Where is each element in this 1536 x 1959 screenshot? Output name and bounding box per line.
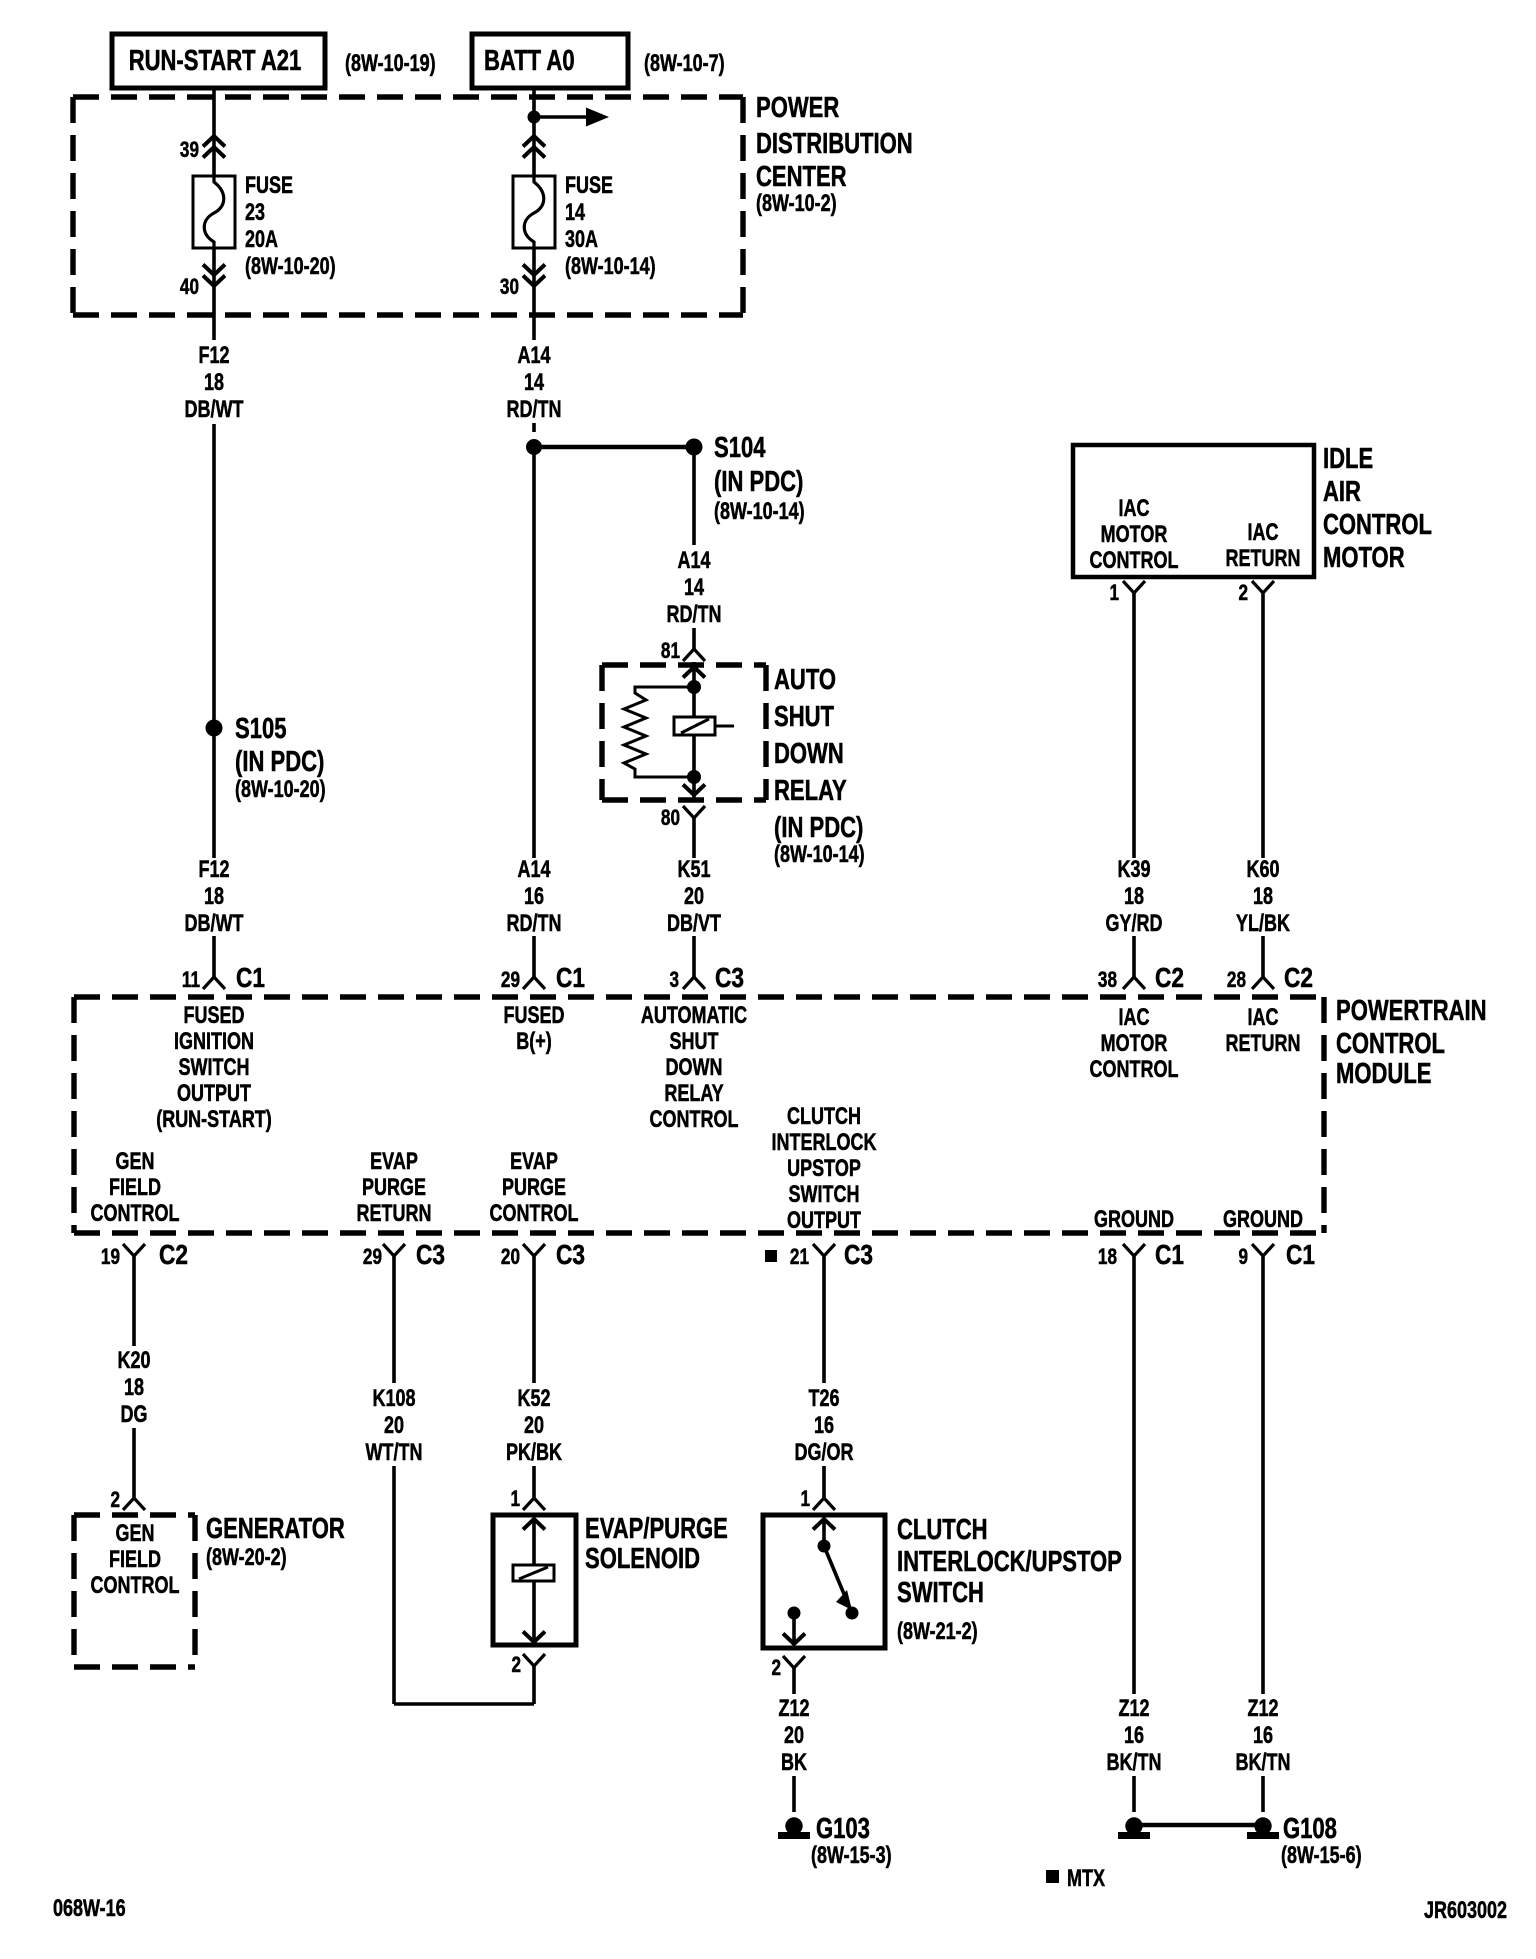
connector pin 9 C1 [1238, 1240, 1315, 1271]
wire RUN-START A21 to fuse 23 [212, 88, 216, 176]
svg-text:IAC: IAC [1248, 1005, 1279, 1031]
svg-text:Z12: Z12 [1247, 1696, 1278, 1722]
svg-text:11: 11 [182, 968, 200, 993]
svg-text:FIELD: FIELD [109, 1175, 161, 1201]
wire to ground G108 right [1261, 1776, 1265, 1812]
svg-text:39: 39 [180, 138, 199, 163]
auto shut down relay dashed box [602, 665, 766, 800]
svg-text:RUN-START A21: RUN-START A21 [129, 45, 302, 77]
svg-text:RD/TN: RD/TN [507, 911, 562, 937]
label S105 (IN PDC) (8W-10-20) [235, 713, 326, 802]
svg-text:PURGE: PURGE [362, 1175, 426, 1201]
connector pin 1 solenoid [510, 1487, 545, 1512]
svg-text:AUTO: AUTO [774, 664, 836, 696]
relay coil K1 [674, 717, 734, 735]
svg-text:FUSED: FUSED [184, 1003, 245, 1029]
wire from pin 20 [532, 1256, 536, 1383]
svg-text:Z12: Z12 [778, 1696, 809, 1722]
svg-text:29: 29 [363, 1245, 382, 1270]
svg-text:PK/BK: PK/BK [506, 1440, 563, 1466]
svg-text:28: 28 [1227, 968, 1246, 993]
ground splice wire [1134, 1823, 1263, 1828]
wire stub to splice [532, 423, 536, 432]
svg-text:3: 3 [669, 968, 679, 993]
switch common contact [818, 1540, 831, 1553]
pin label EVAP PURGE RETURN [357, 1149, 432, 1227]
wire IAC pin2 to K60 label [1261, 593, 1265, 858]
value label FUSE 14 30A (8W-10-14) [565, 173, 656, 280]
svg-text:A14: A14 [677, 548, 710, 574]
svg-text:30A: 30A [565, 227, 598, 253]
svg-text:16: 16 [1124, 1723, 1144, 1749]
svg-text:GY/RD: GY/RD [1106, 911, 1163, 937]
wire from pin 29 [392, 1256, 396, 1383]
svg-text:IAC: IAC [1248, 520, 1279, 546]
wire from pin 21 [822, 1256, 826, 1383]
svg-text:GENERATOR: GENERATOR [206, 1513, 345, 1545]
svg-text:INTERLOCK: INTERLOCK [772, 1130, 878, 1156]
svg-text:20: 20 [784, 1723, 804, 1749]
svg-text:(IN PDC): (IN PDC) [235, 746, 324, 778]
connector pin 80 [661, 806, 705, 831]
svg-text:MOTOR: MOTOR [1101, 522, 1168, 548]
svg-text:EVAP: EVAP [510, 1149, 558, 1175]
label S104 (IN PDC) (8W-10-14) [714, 432, 805, 524]
svg-text:9: 9 [1238, 1245, 1248, 1270]
svg-text:EVAP/PURGE: EVAP/PURGE [585, 1513, 728, 1545]
connector pin 11 C1 [182, 963, 265, 994]
svg-text:G103: G103 [816, 1813, 870, 1845]
wire to ground G103 [792, 1776, 796, 1812]
label IAC RETURN (in box) [1226, 520, 1301, 572]
svg-text:MOTOR: MOTOR [1101, 1031, 1168, 1057]
connector pin 29 C3 [363, 1240, 445, 1271]
svg-text:JR603002: JR603002 [1424, 1898, 1507, 1924]
wire to PCM pin 29 [532, 936, 536, 977]
svg-text:Z12: Z12 [1118, 1696, 1149, 1722]
switch output contact [788, 1607, 801, 1620]
svg-text:18: 18 [204, 884, 224, 910]
svg-text:SWITCH: SWITCH [179, 1055, 250, 1081]
svg-text:S104: S104 [714, 432, 766, 464]
label POWERTRAIN CONTROL MODULE [1336, 995, 1487, 1090]
pin 30 upper chevrons [523, 136, 545, 158]
svg-text:K20: K20 [117, 1348, 150, 1374]
wire switch pin2 down [792, 1668, 796, 1694]
svg-text:CONTROL: CONTROL [1336, 1028, 1445, 1060]
svg-text:38: 38 [1098, 968, 1117, 993]
svg-text:BATT A0: BATT A0 [484, 45, 575, 77]
ground G108 symbol [1247, 1817, 1279, 1839]
svg-text:SWITCH: SWITCH [897, 1577, 984, 1609]
svg-text:(8W-10-14): (8W-10-14) [714, 499, 805, 525]
evap/purge solenoid box [493, 1515, 576, 1645]
wire label A14 14 RD/TN (relay feed) [667, 548, 722, 628]
svg-text:POWERTRAIN: POWERTRAIN [1336, 995, 1487, 1027]
svg-text:16: 16 [1253, 1723, 1273, 1749]
wire elbow K108 to solenoid pin 2 [394, 1702, 534, 1706]
svg-text:IGNITION: IGNITION [174, 1029, 254, 1055]
svg-text:UPSTOP: UPSTOP [787, 1156, 861, 1182]
wire to PCM pin 28 [1261, 936, 1265, 977]
svg-text:BK/TN: BK/TN [1107, 1750, 1162, 1776]
svg-text:30: 30 [500, 275, 519, 300]
svg-text:(8W-10-20): (8W-10-20) [245, 254, 336, 280]
connector pin 1 IAC [1109, 581, 1145, 606]
svg-text:14: 14 [524, 370, 544, 396]
svg-text:DG: DG [121, 1402, 148, 1428]
svg-text:PURGE: PURGE [502, 1175, 566, 1201]
svg-text:GEN: GEN [116, 1521, 155, 1547]
fuse 14 30A [513, 176, 555, 248]
svg-text:18: 18 [204, 370, 224, 396]
svg-text:1: 1 [510, 1487, 520, 1512]
connector pin 20 C3 [501, 1240, 585, 1271]
svg-text:SHUT: SHUT [670, 1029, 719, 1055]
svg-text:(8W-10-2): (8W-10-2) [756, 191, 837, 217]
wire K108 down [392, 1466, 396, 1704]
svg-text:C3: C3 [556, 1240, 585, 1271]
svg-text:YL/BK: YL/BK [1236, 911, 1291, 937]
svg-text:POWER: POWER [756, 92, 840, 124]
wire F12 to S105 [212, 424, 216, 858]
splice S105 [206, 720, 223, 737]
wire splice to S104 [534, 445, 694, 450]
svg-text:SOLENOID: SOLENOID [585, 1543, 700, 1575]
label CLUTCH INTERLOCK/UPSTOP SWITCH (8W-21-2) [897, 1514, 1122, 1644]
label IDLE AIR CONTROL MOTOR [1323, 443, 1432, 574]
wire label A14 14 RD/TN [507, 343, 562, 423]
svg-text:SWITCH: SWITCH [789, 1182, 860, 1208]
wire S104 down to A14 label [692, 455, 696, 545]
svg-text:2: 2 [511, 1653, 521, 1678]
svg-text:20: 20 [524, 1413, 544, 1439]
svg-text:WT/TN: WT/TN [366, 1440, 423, 1466]
svg-text:C1: C1 [556, 963, 585, 994]
solenoid internal wire [532, 1519, 536, 1643]
svg-text:GROUND: GROUND [1094, 1207, 1174, 1233]
connector pin 3 C3 [669, 963, 744, 994]
svg-text:MOTOR: MOTOR [1323, 542, 1405, 574]
wire IAC pin1 to K39 label [1132, 593, 1136, 858]
svg-text:MTX: MTX [1067, 1866, 1105, 1892]
wire label K39 18 GY/RD [1106, 857, 1163, 937]
svg-text:C3: C3 [844, 1240, 873, 1271]
svg-text:OUTPUT: OUTPUT [787, 1208, 861, 1234]
power distribution center dashed box [73, 97, 743, 315]
svg-text:C2: C2 [1284, 963, 1313, 994]
svg-text:18: 18 [1124, 884, 1144, 910]
wire K52 to solenoid [532, 1466, 536, 1498]
switch wire to contact [822, 1519, 826, 1546]
svg-text:(IN PDC): (IN PDC) [714, 466, 803, 498]
svg-text:C2: C2 [1155, 963, 1184, 994]
svg-text:(8W-15-3): (8W-15-3) [811, 1843, 892, 1869]
generator gen field control dashed box [74, 1515, 195, 1667]
wire to ground G108 left [1132, 1776, 1136, 1812]
svg-text:K60: K60 [1246, 857, 1279, 883]
svg-text:RETURN: RETURN [357, 1201, 432, 1227]
connector pin 2 generator [110, 1488, 145, 1513]
svg-text:DB/WT: DB/WT [185, 911, 244, 937]
relay chevron out [683, 785, 705, 796]
switch throw contact [846, 1607, 859, 1620]
wire to PCM pin 11 [212, 936, 216, 977]
node RUN-START A21 feed box [112, 34, 325, 88]
svg-text:DISTRIBUTION: DISTRIBUTION [756, 128, 913, 160]
svg-text:AUTOMATIC: AUTOMATIC [641, 1003, 747, 1029]
label AUTO SHUT DOWN RELAY (IN PDC) (8W-10-14) [774, 664, 865, 867]
pin 40 [180, 265, 225, 300]
svg-text:23: 23 [245, 200, 265, 226]
wire label Z12 20 BK [778, 1696, 809, 1776]
svg-text:(8W-10-19): (8W-10-19) [345, 51, 436, 77]
connector pin 2 switch [771, 1656, 805, 1681]
solenoid coil [513, 1565, 554, 1581]
svg-text:CONTROL: CONTROL [91, 1573, 180, 1599]
pin label IAC MOTOR CONTROL (PCM) [1090, 1005, 1179, 1083]
label EVAP/PURGE SOLENOID [585, 1513, 728, 1575]
wire label A14 16 RD/TN [507, 857, 562, 937]
svg-text:C1: C1 [1155, 1240, 1184, 1271]
connector pin 2 IAC [1238, 581, 1274, 606]
wire K20 to generator [132, 1428, 136, 1498]
wire BATT A0 to fuse 14 [532, 88, 536, 176]
svg-text:MODULE: MODULE [1336, 1058, 1431, 1090]
relay resistor (parallel) [624, 687, 694, 777]
svg-text:DOWN: DOWN [774, 738, 844, 770]
svg-text:S105: S105 [235, 713, 286, 745]
svg-text:BK/TN: BK/TN [1236, 1750, 1291, 1776]
solenoid chevron out [523, 1632, 545, 1643]
svg-text:(8W-20-2): (8W-20-2) [206, 1545, 287, 1571]
wire T26 to switch [822, 1466, 826, 1498]
connector pin 38 C2 [1098, 963, 1184, 994]
pin label IAC RETURN (PCM) [1226, 1005, 1301, 1057]
svg-text:18: 18 [1253, 884, 1273, 910]
wire from pin 18 [1132, 1256, 1136, 1694]
svg-text:C2: C2 [159, 1240, 188, 1271]
svg-text:DOWN: DOWN [666, 1055, 723, 1081]
svg-text:IAC: IAC [1119, 496, 1150, 522]
relay junction top [687, 680, 701, 694]
svg-text:(RUN-START): (RUN-START) [156, 1107, 272, 1133]
svg-text:GROUND: GROUND [1223, 1207, 1303, 1233]
svg-text:C1: C1 [236, 963, 265, 994]
svg-text:BK: BK [781, 1750, 808, 1776]
label G108 (8W-15-6) [1281, 1813, 1362, 1868]
svg-text:CONTROL: CONTROL [490, 1201, 579, 1227]
relay junction bottom [687, 770, 701, 784]
wire label K51 20 DB/VT [667, 857, 721, 937]
svg-text:GEN: GEN [116, 1149, 155, 1175]
powertrain control module dashed box [74, 997, 1324, 1233]
svg-text:FUSE: FUSE [565, 173, 613, 199]
connector pin 21 C3 [765, 1240, 873, 1271]
solenoid chevron in [523, 1519, 545, 1530]
relay internal wire coil to pin 80 [692, 735, 696, 800]
svg-text:2: 2 [1238, 581, 1248, 606]
pin 30 [500, 265, 545, 300]
svg-text:29: 29 [501, 968, 520, 993]
wire label K60 18 YL/BK [1236, 857, 1291, 937]
svg-text:AIR: AIR [1323, 476, 1361, 508]
label G103 (8W-15-3) [811, 1813, 892, 1868]
svg-text:20A: 20A [245, 227, 278, 253]
svg-text:18: 18 [124, 1375, 144, 1401]
svg-text:(IN PDC): (IN PDC) [774, 812, 863, 844]
svg-text:16: 16 [524, 884, 544, 910]
svg-text:068W-16: 068W-16 [53, 1896, 126, 1922]
svg-text:FUSE: FUSE [245, 173, 293, 199]
label POWER DISTRIBUTION CENTER [756, 92, 913, 216]
ground G108 left symbol [1118, 1817, 1150, 1839]
wire label Z12 16 BK/TN (pin 9) [1236, 1696, 1291, 1776]
svg-text:16: 16 [814, 1413, 834, 1439]
svg-text:C1: C1 [1286, 1240, 1315, 1271]
switch blade with arrow [824, 1546, 844, 1594]
svg-text:FIELD: FIELD [109, 1547, 161, 1573]
clutch interlock/upstop switch box [763, 1515, 885, 1648]
svg-text:C3: C3 [416, 1240, 445, 1271]
pin label EVAP PURGE CONTROL [490, 1149, 579, 1227]
svg-text:CONTROL: CONTROL [650, 1107, 739, 1133]
svg-text:CLUTCH: CLUTCH [787, 1104, 861, 1130]
svg-text:20: 20 [384, 1413, 404, 1439]
wire label K52 20 PK/BK [506, 1386, 563, 1466]
svg-text:A14: A14 [517, 343, 550, 369]
svg-text:RELAY: RELAY [774, 775, 847, 807]
connector pin 81 [661, 639, 705, 664]
svg-text:20: 20 [501, 1245, 520, 1270]
svg-text:IDLE: IDLE [1323, 443, 1373, 475]
svg-text:EVAP: EVAP [370, 1149, 418, 1175]
wire to PCM pin 3 [692, 936, 696, 977]
svg-text:T26: T26 [808, 1386, 839, 1412]
svg-text:20: 20 [684, 884, 704, 910]
wire label F12 18 DB/WT lower [185, 857, 244, 937]
svg-text:(8W-21-2): (8W-21-2) [897, 1619, 978, 1645]
svg-text:19: 19 [101, 1245, 120, 1270]
svg-text:RETURN: RETURN [1226, 546, 1301, 572]
pin label CLUTCH INTERLOCK UPSTOP SWITCH OUTPUT [772, 1104, 878, 1234]
svg-text:CONTROL: CONTROL [1090, 548, 1179, 574]
junction dot with arrow (feed continues) [528, 108, 610, 127]
svg-text:RELAY: RELAY [664, 1081, 723, 1107]
svg-text:B(+): B(+) [516, 1029, 551, 1055]
svg-text:INTERLOCK/UPSTOP: INTERLOCK/UPSTOP [897, 1546, 1122, 1578]
svg-text:G108: G108 [1283, 1813, 1337, 1845]
svg-text:DB/WT: DB/WT [185, 397, 244, 423]
pin label FUSED IGNITION SWITCH OUTPUT (RUN-START) [156, 1003, 272, 1133]
svg-text:CONTROL: CONTROL [1090, 1057, 1179, 1083]
wire from pin 19 [132, 1256, 136, 1346]
wire label K108 20 WT/TN [366, 1386, 423, 1466]
wire relay to K51 label [692, 818, 696, 858]
label IAC MOTOR CONTROL (in box) [1090, 496, 1179, 574]
wire to PCM pin 38 [1132, 936, 1136, 977]
pin label GEN FIELD CONTROL [91, 1149, 180, 1227]
svg-text:F12: F12 [198, 343, 229, 369]
svg-text:(8W-15-6): (8W-15-6) [1281, 1843, 1362, 1869]
svg-text:14: 14 [684, 575, 704, 601]
svg-text:CLUTCH: CLUTCH [897, 1514, 988, 1546]
connector pin 18 C1 [1098, 1240, 1184, 1271]
wire label K20 18 DG [117, 1348, 150, 1428]
connector pin 19 C2 [101, 1240, 188, 1271]
svg-text:DG/OR: DG/OR [795, 1440, 854, 1466]
wire to relay pin 81 [692, 628, 696, 649]
svg-text:18: 18 [1098, 1245, 1117, 1270]
svg-text:(8W-10-14): (8W-10-14) [774, 842, 865, 868]
svg-text:(8W-10-14): (8W-10-14) [565, 254, 656, 280]
svg-text:80: 80 [661, 806, 680, 831]
svg-text:IAC: IAC [1119, 1005, 1150, 1031]
svg-text:SHUT: SHUT [774, 701, 834, 733]
svg-text:81: 81 [661, 639, 680, 664]
connector pin 28 C2 [1227, 963, 1313, 994]
wire label F12 18 DB/WT [185, 343, 244, 423]
node BATT A0 feed box [472, 34, 628, 88]
wire from pin 9 [1261, 1256, 1265, 1694]
wire fuse 14 to A14 label [532, 248, 536, 340]
svg-text:14: 14 [565, 200, 585, 226]
wire fuse 23 to F12 label [212, 248, 216, 340]
svg-text:C3: C3 [715, 963, 744, 994]
switch chevron out [783, 1634, 805, 1645]
svg-text:CONTROL: CONTROL [1323, 509, 1432, 541]
connector pin 29 C1 [501, 963, 585, 994]
svg-text:1: 1 [800, 1487, 810, 1512]
pin label AUTOMATIC SHUT DOWN RELAY CONTROL [641, 1003, 747, 1133]
svg-text:CENTER: CENTER [756, 161, 847, 193]
svg-text:K51: K51 [677, 857, 710, 883]
svg-text:RD/TN: RD/TN [667, 602, 722, 628]
svg-text:RETURN: RETURN [1226, 1031, 1301, 1057]
label GEN FIELD CONTROL (generator) [91, 1521, 180, 1599]
connector pin 2 solenoid [511, 1653, 545, 1678]
relay chevron in [683, 667, 705, 678]
wire solenoid pin2 down [532, 1666, 536, 1704]
note MTX [1046, 1866, 1105, 1892]
svg-text:2: 2 [771, 1656, 781, 1681]
svg-text:K39: K39 [1117, 857, 1150, 883]
svg-text:RD/TN: RD/TN [507, 397, 562, 423]
relay internal wire pin81 side [692, 662, 696, 723]
svg-text:K108: K108 [372, 1386, 415, 1412]
label GENERATOR (8W-20-2) [206, 1513, 345, 1570]
wire label Z12 16 BK/TN (pin 18) [1107, 1696, 1162, 1776]
svg-text:21: 21 [790, 1245, 809, 1270]
svg-text:FUSED: FUSED [504, 1003, 565, 1029]
svg-text:F12: F12 [198, 857, 229, 883]
svg-text:2: 2 [110, 1488, 120, 1513]
value label FUSE 23 20A (8W-10-20) [245, 173, 336, 280]
svg-text:(8W-10-20): (8W-10-20) [235, 777, 326, 803]
junction at S104 tap [526, 439, 542, 455]
idle air control motor box [1073, 445, 1314, 577]
wire junction down to PCM pin 29 [532, 447, 536, 858]
svg-text:DB/VT: DB/VT [667, 911, 721, 937]
wire label T26 16 DG/OR [795, 1386, 854, 1466]
svg-text:A14: A14 [517, 857, 550, 883]
switch chevron in [813, 1519, 835, 1530]
svg-text:OUTPUT: OUTPUT [177, 1081, 251, 1107]
pin 39 [180, 136, 225, 163]
splice S104 [686, 439, 703, 456]
connector pin 1 switch [800, 1487, 835, 1512]
svg-text:1: 1 [1109, 581, 1119, 606]
